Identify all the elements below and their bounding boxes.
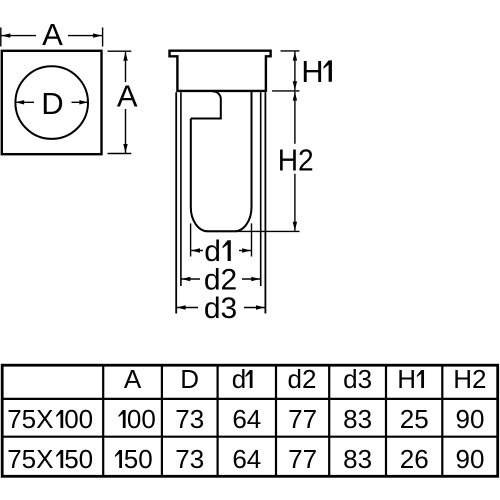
flange (top hat) outline [170,51,271,91]
svg-text:d3: d3 [204,292,237,325]
svg-text:D: D [180,364,199,394]
svg-text:d3: d3 [343,364,372,394]
svg-text:77: 77 [288,444,317,474]
H1 dim line + arrows [293,52,297,91]
trap tube left wall and bottom U [191,92,252,232]
bottom extension line [108,153,132,155]
svg-text:64: 64 [232,444,261,474]
svg-text:73: 73 [175,444,204,474]
row line 1 [2,398,498,400]
pipe inner wall left (d2 extension) [180,92,182,286]
table row 1 text [7,404,484,434]
dim line right segment + arrow [68,33,102,37]
d3 right arrow [244,305,265,309]
svg-text:D: D [41,86,63,121]
svg-text:H2: H2 [278,142,314,177]
table header row text [124,364,487,394]
svg-text:00: 00 [127,404,156,434]
dim line left segment + arrow [1,33,36,37]
pipe outer wall right (d3 extension) [264,92,266,313]
table row 2 text [7,444,484,474]
svg-text:00: 00 [64,404,93,434]
svg-text:H: H [397,364,416,394]
circle D [15,66,88,139]
svg-text:90: 90 [456,444,485,474]
column lines [102,365,104,476]
svg-text:73: 73 [175,404,204,434]
pipe outer wall left (d3 extension) [175,92,177,313]
svg-text:83: 83 [343,444,372,474]
svg-text:A: A [124,364,142,394]
left extension line [190,223,192,256]
table outer border [2,365,498,476]
right extension line [251,223,253,256]
d1 left arrow [191,248,203,252]
pipe inner wall right (d2 extension) [260,92,262,286]
D right arrow [72,100,89,104]
svg-text:50: 50 [124,444,153,474]
svg-text:H2: H2 [453,364,486,394]
svg-text:77: 77 [288,404,317,434]
inner trap hook profile [191,92,221,119]
right extension line [102,28,104,47]
svg-text:75X: 75X [7,404,53,434]
left extension line [0,28,2,47]
svg-text:90: 90 [456,404,485,434]
top extension line [281,50,300,52]
svg-text:d2: d2 [288,364,317,394]
middle extension line (flange bottom) [272,90,299,92]
bottom extension line (tube bottom) [207,230,300,232]
top extension line [108,50,132,52]
svg-text:26: 26 [400,444,429,474]
svg-text:A: A [42,17,63,52]
row line 2 [2,436,498,438]
H2 dim line + arrows [293,92,297,231]
svg-text:83: 83 [343,404,372,434]
svg-text:A: A [117,78,138,113]
d2 left arrow [181,277,200,281]
svg-text:H: H [301,54,323,89]
d2 right arrow [242,277,260,281]
svg-text:64: 64 [232,404,261,434]
svg-text:25: 25 [400,404,429,434]
d1 right arrow [239,248,251,252]
d3 left arrow [177,305,198,309]
svg-text:d: d [232,364,246,394]
square flange outline [2,51,102,154]
svg-text:50: 50 [64,444,93,474]
svg-text:75X: 75X [7,444,53,474]
D left arrow [15,100,34,104]
label H2 (white background over line) [277,144,314,174]
label A right (white background over line) [114,82,138,109]
dim line + arrows [123,52,127,153]
